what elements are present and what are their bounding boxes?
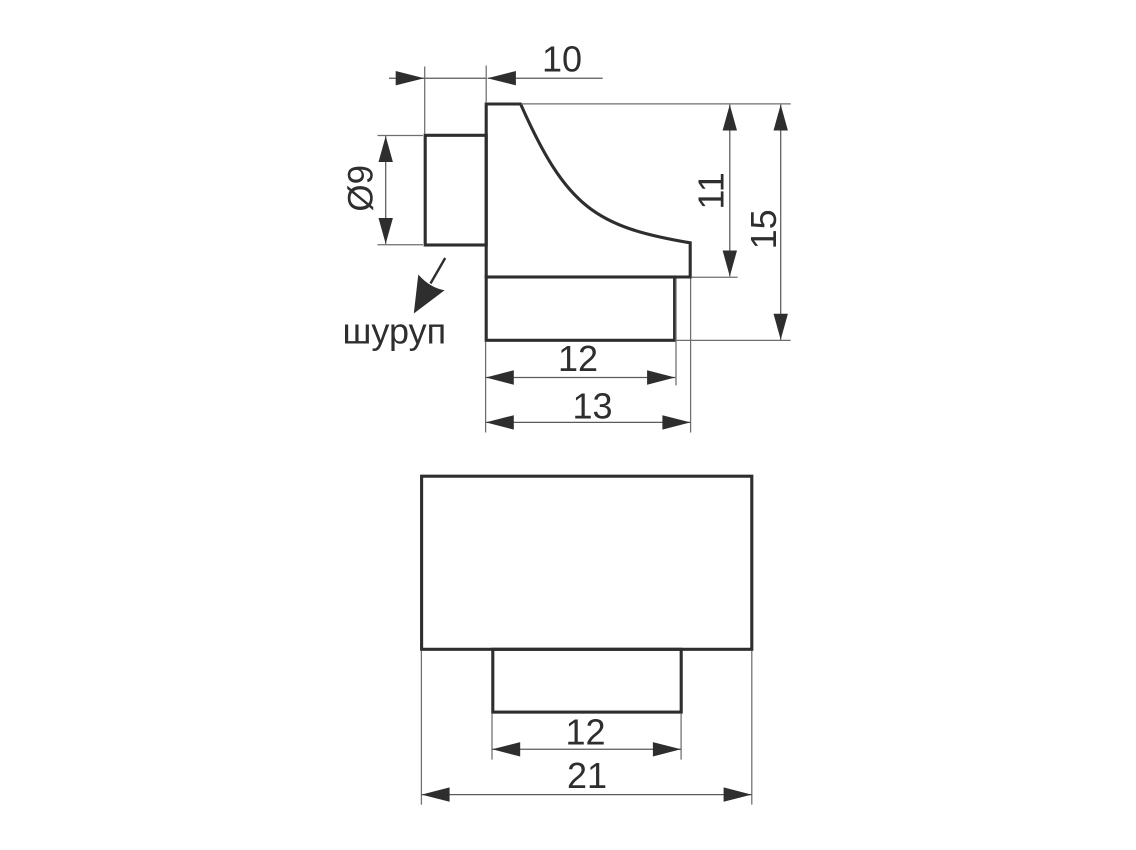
dimension 11: bottom extension line bbox=[692, 276, 738, 278]
dimension 15: bottom arrow bbox=[774, 314, 788, 340]
dimension 15: bottom extension line bbox=[677, 339, 791, 341]
dimension 12 (front view): extension lines bbox=[492, 714, 681, 760]
svg-text:12: 12 bbox=[558, 338, 598, 379]
svg-text:13: 13 bbox=[572, 385, 612, 426]
screw leader arrowhead bbox=[414, 275, 445, 314]
dimension 12 (front view): left arrow bbox=[492, 742, 520, 756]
side view: main body outline with concave curve bbox=[486, 104, 690, 277]
dimension 12 (side view): dimension line bbox=[486, 377, 676, 379]
side view: screw boss rectangle bbox=[425, 135, 486, 245]
dimension 13: dimension line bbox=[486, 421, 691, 423]
dimension 21: left arrow bbox=[422, 787, 450, 801]
front view: base plate small rectangle bbox=[493, 649, 681, 712]
dimension 10: right arrow (outside, points left) bbox=[487, 71, 516, 85]
dimension 12 (front view): dimension line bbox=[492, 748, 681, 750]
svg-text:Ø9: Ø9 bbox=[341, 165, 380, 212]
dimension 13: right extension line bbox=[690, 279, 692, 433]
svg-text:15: 15 bbox=[743, 209, 784, 249]
svg-text:10: 10 bbox=[542, 39, 582, 80]
side view: base plate rectangle bbox=[486, 277, 674, 340]
dimension 11: top arrow bbox=[723, 105, 737, 131]
dimension 21: extension lines bbox=[421, 651, 751, 805]
svg-text:21: 21 bbox=[567, 755, 607, 796]
dimension 12 (side view): left arrow bbox=[486, 370, 514, 384]
svg-text:шуруп: шуруп bbox=[343, 311, 447, 352]
dimension 11: dimension line bbox=[729, 105, 731, 277]
dimension 13: left arrow bbox=[486, 415, 514, 429]
dimension 21: right arrow bbox=[724, 787, 752, 801]
dimension 13: right arrow bbox=[662, 415, 690, 429]
dimension 12 (side view): extension lines bbox=[486, 279, 676, 433]
front view: big rectangle bbox=[422, 476, 752, 649]
dimension Ø9: extension lines bbox=[378, 136, 424, 245]
dimension Ø9: top arrow bbox=[379, 136, 393, 162]
dimension 21: dimension line bbox=[421, 794, 751, 796]
dimension Ø9: dimension line bbox=[385, 136, 387, 244]
dimension 15: dimension line bbox=[780, 105, 782, 340]
dimension 15: top extension line bbox=[521, 103, 791, 105]
dimension 15: top arrow bbox=[774, 105, 788, 131]
dimension Ø9: bottom arrow bbox=[379, 218, 393, 244]
dimension 11: bottom arrow bbox=[723, 251, 737, 277]
svg-text:12: 12 bbox=[565, 711, 605, 752]
dimension 12 (front view): right arrow bbox=[653, 742, 681, 756]
dimension 10: extension lines bbox=[425, 66, 487, 135]
dimension 12 (side view): right arrow bbox=[647, 370, 675, 384]
svg-text:11: 11 bbox=[691, 172, 732, 209]
dimension 10: left arrow (outside, points right) bbox=[396, 71, 425, 85]
dimension 10: dimension line bbox=[389, 77, 603, 79]
screw leader line bbox=[431, 258, 446, 284]
